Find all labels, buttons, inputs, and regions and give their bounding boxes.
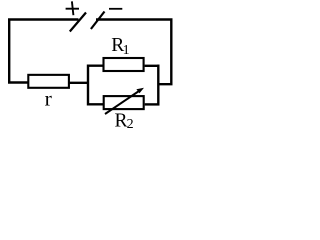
svg-text:R: R bbox=[115, 110, 128, 131]
resistor r bbox=[28, 75, 69, 88]
minus sign label bbox=[109, 8, 122, 10]
wire r to left bus node bbox=[69, 82, 89, 84]
left bus wire bbox=[88, 66, 103, 105]
rheostat arrow bbox=[105, 90, 141, 114]
svg-text:r: r bbox=[45, 89, 52, 111]
right bus wire bbox=[157, 65, 159, 106]
wire top-right from battery - terminal and right side down to junction stub bbox=[96, 20, 171, 85]
svg-text:2: 2 bbox=[127, 117, 134, 132]
battery plate + (long slash) bbox=[70, 13, 86, 32]
svg-text:1: 1 bbox=[123, 43, 130, 58]
wire R2 to right bus bbox=[145, 103, 160, 105]
resistor R1 bbox=[104, 58, 144, 71]
resistor R2 (rheostat box) bbox=[104, 96, 144, 109]
battery plate - (short slash) bbox=[91, 12, 105, 30]
plus sign label bbox=[66, 8, 79, 10]
wire R1 to right bus bbox=[145, 65, 160, 67]
wire top-left from battery + terminal, left side and bottom-left bbox=[9, 20, 78, 83]
